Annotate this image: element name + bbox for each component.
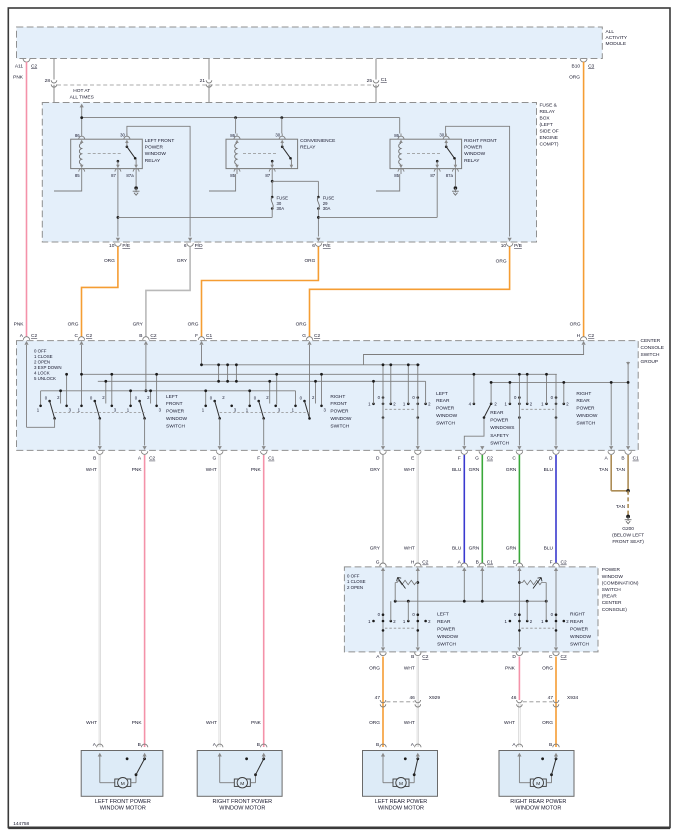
svg-text:86: 86 xyxy=(75,133,80,138)
svg-text:6: 6 xyxy=(312,243,315,249)
svg-text:C2: C2 xyxy=(588,333,594,339)
svg-text:M: M xyxy=(121,781,125,787)
svg-text:REAR: REAR xyxy=(437,619,451,625)
svg-text:E: E xyxy=(513,560,516,566)
svg-text:C: C xyxy=(75,333,79,339)
svg-text:ORG: ORG xyxy=(542,720,553,726)
svg-text:D: D xyxy=(549,456,553,462)
svg-text:2 OPEN: 2 OPEN xyxy=(34,360,50,365)
svg-text:M: M xyxy=(399,781,403,787)
svg-text:WINDOW: WINDOW xyxy=(602,574,624,580)
svg-text:B: B xyxy=(93,456,96,462)
svg-text:(REAR: (REAR xyxy=(602,594,617,600)
svg-text:C2: C2 xyxy=(314,333,320,339)
svg-text:SWITCH: SWITCH xyxy=(576,420,595,426)
svg-text:P/B: P/B xyxy=(514,243,522,249)
svg-text:SWITCH: SWITCH xyxy=(437,641,456,647)
svg-text:PNK: PNK xyxy=(505,666,516,672)
svg-text:G: G xyxy=(376,560,380,566)
svg-text:POWER: POWER xyxy=(602,567,621,573)
svg-text:C1: C1 xyxy=(633,456,639,462)
svg-text:87: 87 xyxy=(430,173,435,178)
svg-text:MODULE: MODULE xyxy=(606,41,627,47)
svg-text:POWER: POWER xyxy=(576,406,595,412)
svg-text:M: M xyxy=(240,781,244,787)
svg-text:POWER: POWER xyxy=(490,418,509,424)
svg-text:PNK: PNK xyxy=(13,75,24,81)
svg-text:TAN: TAN xyxy=(599,467,609,473)
svg-text:WHT: WHT xyxy=(86,720,97,726)
svg-text:86: 86 xyxy=(230,133,235,138)
svg-text:LEFT REAR POWER: LEFT REAR POWER xyxy=(375,799,427,805)
svg-text:30: 30 xyxy=(277,201,282,206)
svg-text:10: 10 xyxy=(501,243,507,249)
svg-text:PNK: PNK xyxy=(132,467,143,473)
svg-text:46: 46 xyxy=(511,695,517,701)
svg-text:G: G xyxy=(302,333,306,339)
svg-text:GROUP: GROUP xyxy=(641,359,659,365)
svg-text:ORG: ORG xyxy=(296,322,307,328)
svg-text:SWITCH: SWITCH xyxy=(166,423,185,429)
svg-text:LEFT: LEFT xyxy=(437,611,449,617)
svg-text:ALL: ALL xyxy=(606,29,615,35)
svg-text:F: F xyxy=(257,456,260,462)
svg-text:BLU: BLU xyxy=(452,467,462,473)
svg-text:B: B xyxy=(549,742,552,748)
svg-text:FRONT SEAT): FRONT SEAT) xyxy=(612,539,644,545)
svg-text:10: 10 xyxy=(109,243,115,249)
svg-text:FUSE: FUSE xyxy=(277,196,289,201)
svg-text:CONSOLE: CONSOLE xyxy=(641,345,664,351)
svg-text:ORG: ORG xyxy=(570,322,581,328)
svg-text:0 OFF: 0 OFF xyxy=(34,349,47,354)
svg-text:WINDOW: WINDOW xyxy=(464,151,486,157)
svg-text:FUSE: FUSE xyxy=(323,196,335,201)
svg-text:GRY: GRY xyxy=(177,258,188,264)
svg-text:REAR: REAR xyxy=(576,398,590,404)
svg-text:(BELOW LEFT: (BELOW LEFT xyxy=(612,533,644,539)
svg-text:SAFETY: SAFETY xyxy=(490,433,509,439)
svg-text:GRY: GRY xyxy=(133,322,144,328)
svg-text:X934: X934 xyxy=(567,695,579,701)
svg-text:WINDOW MOTOR: WINDOW MOTOR xyxy=(515,806,561,812)
svg-text:POWER: POWER xyxy=(330,409,349,415)
svg-text:ORG: ORG xyxy=(68,322,79,328)
svg-text:B: B xyxy=(621,456,624,462)
svg-text:HOT AT: HOT AT xyxy=(73,88,90,94)
svg-text:SWITCH: SWITCH xyxy=(490,441,509,447)
svg-text:GRN: GRN xyxy=(469,467,480,473)
svg-text:B: B xyxy=(411,654,414,660)
svg-text:87: 87 xyxy=(265,173,270,178)
svg-text:ORG: ORG xyxy=(104,258,115,264)
svg-text:F: F xyxy=(195,333,198,339)
svg-text:B10: B10 xyxy=(572,64,581,70)
svg-text:WHT: WHT xyxy=(404,545,415,551)
svg-text:25: 25 xyxy=(367,78,373,84)
svg-text:C1: C1 xyxy=(268,456,274,462)
svg-text:WHT: WHT xyxy=(404,720,415,726)
svg-text:POWER: POWER xyxy=(436,406,455,412)
svg-text:G200: G200 xyxy=(622,526,634,532)
svg-text:P/D: P/D xyxy=(195,243,204,249)
svg-text:30A: 30A xyxy=(277,206,285,211)
svg-text:RIGHT REAR POWER: RIGHT REAR POWER xyxy=(510,799,566,805)
svg-text:F: F xyxy=(550,560,553,566)
svg-text:C: C xyxy=(512,456,516,462)
svg-text:ALL TIMES: ALL TIMES xyxy=(70,95,94,101)
svg-text:BLU: BLU xyxy=(544,467,554,473)
svg-text:POWER: POWER xyxy=(166,409,185,415)
svg-text:144758: 144758 xyxy=(13,821,29,827)
svg-text:85: 85 xyxy=(230,173,235,178)
svg-text:C2: C2 xyxy=(149,456,155,462)
svg-text:C2: C2 xyxy=(86,333,92,339)
svg-text:G: G xyxy=(212,456,216,462)
svg-text:6: 6 xyxy=(184,243,187,249)
svg-text:LEFT: LEFT xyxy=(166,394,178,400)
svg-text:WINDOW MOTOR: WINDOW MOTOR xyxy=(100,806,146,812)
svg-text:ACTIVITY: ACTIVITY xyxy=(606,35,628,41)
svg-text:WINDOWS: WINDOWS xyxy=(490,425,514,431)
svg-text:B: B xyxy=(138,742,141,748)
svg-text:RIGHT: RIGHT xyxy=(330,394,345,400)
svg-text:RIGHT: RIGHT xyxy=(576,391,591,397)
svg-text:21: 21 xyxy=(200,78,206,84)
svg-text:PNK: PNK xyxy=(251,720,262,726)
svg-text:RELAY: RELAY xyxy=(540,109,556,115)
svg-text:P/E: P/E xyxy=(323,243,331,249)
svg-text:CONVENIENCE: CONVENIENCE xyxy=(300,138,335,144)
svg-text:30: 30 xyxy=(120,132,125,137)
svg-text:GRN: GRN xyxy=(469,545,480,551)
svg-text:ORG: ORG xyxy=(569,75,580,81)
svg-text:46: 46 xyxy=(409,695,415,701)
svg-text:ORG: ORG xyxy=(369,666,380,672)
svg-text:PNK: PNK xyxy=(251,467,262,473)
svg-text:LEFT FRONT: LEFT FRONT xyxy=(145,138,175,144)
svg-text:WHT: WHT xyxy=(404,666,415,672)
svg-text:CENTER: CENTER xyxy=(602,600,622,606)
svg-text:FRONT: FRONT xyxy=(330,401,347,407)
svg-text:(LEFT: (LEFT xyxy=(540,122,553,128)
svg-text:X929: X929 xyxy=(429,695,441,701)
svg-text:D: D xyxy=(376,456,380,462)
svg-text:SWITCH: SWITCH xyxy=(641,352,660,358)
svg-text:F: F xyxy=(458,456,461,462)
svg-text:2 OPEN: 2 OPEN xyxy=(347,585,363,590)
svg-text:30A: 30A xyxy=(323,206,331,211)
svg-text:WINDOW: WINDOW xyxy=(437,634,459,640)
svg-text:WINDOW: WINDOW xyxy=(576,413,598,419)
svg-text:PNK: PNK xyxy=(14,322,25,328)
svg-text:WINDOW MOTOR: WINDOW MOTOR xyxy=(378,806,424,812)
svg-text:TAN: TAN xyxy=(616,504,626,510)
svg-text:SWITCH: SWITCH xyxy=(436,420,455,426)
svg-text:FUSE &: FUSE & xyxy=(540,102,558,108)
svg-text:LEFT FRONT POWER: LEFT FRONT POWER xyxy=(95,799,151,805)
svg-text:C2: C2 xyxy=(561,560,567,566)
svg-text:47: 47 xyxy=(375,695,381,701)
svg-text:BLU: BLU xyxy=(544,545,554,551)
svg-text:B: B xyxy=(376,742,379,748)
svg-text:C1: C1 xyxy=(381,77,387,83)
svg-text:CENTER: CENTER xyxy=(641,338,661,344)
svg-text:H: H xyxy=(411,560,415,566)
svg-text:85: 85 xyxy=(394,173,399,178)
svg-text:WINDOW: WINDOW xyxy=(330,416,352,422)
svg-text:4 LOCK: 4 LOCK xyxy=(34,371,50,376)
svg-text:GRN: GRN xyxy=(506,545,517,551)
svg-text:(COMBINATION): (COMBINATION) xyxy=(602,580,639,586)
svg-text:C2: C2 xyxy=(422,654,428,660)
svg-text:CONSOLE): CONSOLE) xyxy=(602,607,627,613)
svg-text:C2: C2 xyxy=(31,333,37,339)
svg-text:RIGHT FRONT POWER: RIGHT FRONT POWER xyxy=(212,799,272,805)
svg-text:86: 86 xyxy=(394,133,399,138)
svg-text:E: E xyxy=(411,456,414,462)
svg-text:C2: C2 xyxy=(561,654,567,660)
svg-text:GRY: GRY xyxy=(370,467,381,473)
svg-text:WINDOW: WINDOW xyxy=(570,634,592,640)
svg-text:BLU: BLU xyxy=(452,545,462,551)
svg-text:P/E: P/E xyxy=(122,243,130,249)
svg-text:1 CLOSE: 1 CLOSE xyxy=(347,579,366,584)
svg-text:C2: C2 xyxy=(487,456,493,462)
svg-text:POWER: POWER xyxy=(570,626,589,632)
svg-text:GRY: GRY xyxy=(370,545,381,551)
svg-text:ENGINE: ENGINE xyxy=(540,135,558,141)
svg-text:B: B xyxy=(476,560,479,566)
svg-text:47: 47 xyxy=(548,695,554,701)
svg-text:ORG: ORG xyxy=(496,259,507,265)
svg-text:WINDOW MOTOR: WINDOW MOTOR xyxy=(219,806,265,812)
svg-text:30: 30 xyxy=(275,132,280,137)
svg-text:FRONT: FRONT xyxy=(166,401,183,407)
svg-text:ORG: ORG xyxy=(188,322,199,328)
svg-text:C1: C1 xyxy=(487,560,493,566)
svg-text:WHT: WHT xyxy=(206,720,217,726)
svg-text:WHT: WHT xyxy=(504,720,515,726)
svg-text:POWER: POWER xyxy=(437,626,456,632)
svg-text:0 OFF: 0 OFF xyxy=(347,573,360,578)
svg-text:5 UNLOCK: 5 UNLOCK xyxy=(34,376,56,381)
svg-text:ORG: ORG xyxy=(542,666,553,672)
svg-text:COMPT): COMPT) xyxy=(540,141,559,147)
svg-text:D: D xyxy=(512,654,516,660)
svg-text:SWITCH: SWITCH xyxy=(330,423,349,429)
svg-text:SWITCH: SWITCH xyxy=(570,641,589,647)
svg-text:WINDOW: WINDOW xyxy=(145,151,167,157)
svg-text:B: B xyxy=(257,742,260,748)
svg-text:SWITCH: SWITCH xyxy=(602,587,621,593)
svg-text:85: 85 xyxy=(75,173,80,178)
svg-text:BOX: BOX xyxy=(540,115,551,121)
svg-text:WINDOW: WINDOW xyxy=(166,416,188,422)
svg-text:WHT: WHT xyxy=(206,467,217,473)
svg-text:30: 30 xyxy=(439,132,444,137)
svg-text:1 CLOSE: 1 CLOSE xyxy=(34,354,53,359)
svg-text:28: 28 xyxy=(45,78,51,84)
svg-text:WHT: WHT xyxy=(404,467,415,473)
svg-text:GRN: GRN xyxy=(506,467,517,473)
svg-text:RELAY: RELAY xyxy=(300,145,316,151)
svg-text:C2: C2 xyxy=(31,64,37,70)
svg-text:3 EXP DOWN: 3 EXP DOWN xyxy=(34,365,62,370)
svg-text:RIGHT: RIGHT xyxy=(570,611,585,617)
svg-text:PNK: PNK xyxy=(132,720,143,726)
svg-text:A11: A11 xyxy=(15,64,24,70)
svg-text:87a: 87a xyxy=(446,173,454,178)
svg-text:C2: C2 xyxy=(422,560,428,566)
svg-text:G: G xyxy=(475,456,479,462)
svg-text:WHT: WHT xyxy=(86,467,97,473)
svg-text:POWER: POWER xyxy=(464,145,483,151)
svg-text:87: 87 xyxy=(111,173,116,178)
svg-text:REAR: REAR xyxy=(490,410,504,416)
svg-text:29: 29 xyxy=(323,201,328,206)
svg-text:RIGHT FRONT: RIGHT FRONT xyxy=(464,138,497,144)
svg-text:REAR: REAR xyxy=(436,398,450,404)
svg-text:B: B xyxy=(139,333,142,339)
svg-text:M: M xyxy=(536,781,540,787)
svg-text:H: H xyxy=(577,333,581,339)
svg-text:ORG: ORG xyxy=(304,258,315,264)
svg-text:RELAY: RELAY xyxy=(464,158,480,164)
svg-text:TAN: TAN xyxy=(616,467,626,473)
svg-text:WINDOW: WINDOW xyxy=(436,413,458,419)
svg-text:C1: C1 xyxy=(206,333,212,339)
svg-text:REAR: REAR xyxy=(570,619,584,625)
svg-text:ORG: ORG xyxy=(369,720,380,726)
svg-text:LEFT: LEFT xyxy=(436,391,448,397)
svg-text:C: C xyxy=(549,654,553,660)
svg-text:C2: C2 xyxy=(150,333,156,339)
svg-text:SIDE OF: SIDE OF xyxy=(540,128,559,134)
svg-text:RELAY: RELAY xyxy=(145,158,161,164)
svg-text:87a: 87a xyxy=(126,173,134,178)
svg-text:C3: C3 xyxy=(588,64,594,70)
svg-text:POWER: POWER xyxy=(145,145,164,151)
